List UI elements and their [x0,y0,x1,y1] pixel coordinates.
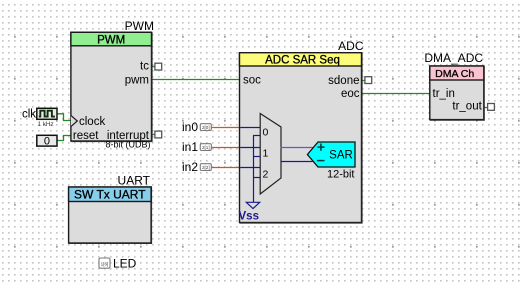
pin sdone [328,75,359,87]
mux (analog input multiplexer) [260,114,281,195]
svg-text:PWM: PWM [125,19,154,33]
pin tr_in [433,88,455,100]
terminal square interrupt [155,131,162,138]
svg-text:DMA_ADC: DMA_ADC [424,51,483,65]
svg-text:12-bit: 12-bit [327,169,355,181]
svg-text:clk: clk [22,109,36,121]
svg-text:in1: in1 [182,140,198,154]
pin pwm [125,75,149,87]
wire: constant 0 to PWM reset [57,136,71,141]
wire: in2 internal (blue) [240,167,261,169]
terminal square sdone [365,77,372,84]
svg-text:DMA Ch: DMA Ch [435,68,474,80]
wire: interrupt stub [152,134,159,136]
ground Vss symbol [239,202,260,222]
wire: in1 internal (blue) [240,147,261,149]
svg-text:tc: tc [140,61,149,73]
svg-text:2[0]: 2[0] [202,125,210,130]
wire: vss stub ch0 [253,135,261,137]
svg-text:1: 1 [263,147,269,159]
svg-text:reset: reset [73,130,99,142]
svg-text:in0: in0 [182,120,198,134]
label 1 kHz [38,121,54,128]
svg-text:2[1]: 2[1] [202,145,210,150]
svg-text:0: 0 [263,126,269,138]
svg-text:ADC: ADC [338,39,364,53]
svg-text:in2: in2 [182,160,198,174]
wire: in1 analog wire [211,147,239,149]
svg-text:clock: clock [79,116,105,128]
wire: clk to PWM clock [57,114,71,121]
pin reset [73,130,99,142]
svg-text:Vss: Vss [239,210,259,222]
pin icon in0 [200,124,211,131]
wire: vss stub ch1 [253,156,261,158]
label ADC (instance name) [338,39,364,53]
terminal square tr_out [488,104,495,111]
wire: in0 internal (blue) [240,127,261,129]
svg-text:eoc: eoc [341,88,360,100]
wire: vss stub ch2 [253,177,261,179]
svg-text:sdone: sdone [328,75,359,87]
SAR core (cyan pentagon) [307,142,355,167]
component PWM_1 block [71,32,152,141]
svg-text:tr_out: tr_out [452,101,482,113]
pin label in1 [182,140,198,154]
wire: vss vertical bus [253,136,255,203]
label 8-bit (UDB) [105,140,150,150]
pin label in0 [182,120,198,134]
label UART (instance name) [118,173,151,187]
wire: tr_out stub [484,107,491,109]
svg-text:soc: soc [243,75,261,87]
constant 0 block [37,135,57,147]
svg-text:LED: LED [113,256,137,270]
pin icon in1 [200,144,211,151]
pin soc [243,75,261,87]
component ADC SAR Seq block [240,53,363,223]
wire: sdone stub [362,80,369,82]
pin label in2 [182,160,198,174]
wire: pwm output to ADC soc [152,79,240,81]
wire: in0 analog wire [211,127,239,129]
label 12-bit [327,169,355,181]
pin icon LED [99,258,110,268]
svg-text:ADC SAR Seq: ADC SAR Seq [265,54,340,66]
pin tc [140,61,149,73]
label DMA_ADC (instance name) [424,51,483,65]
svg-text:UART: UART [118,173,151,187]
wire: mux plus output [281,147,314,149]
svg-text:pwm: pwm [125,75,149,87]
wire: tc stub [152,66,159,68]
svg-text:tr_in: tr_in [433,88,455,100]
svg-text:SW Tx UART: SW Tx UART [74,188,146,202]
label clk [22,109,36,121]
svg-text:PWM: PWM [97,34,125,46]
terminal square tc [155,63,162,70]
svg-text:0: 0 [44,136,50,148]
svg-text:2[2]: 2[2] [202,165,210,170]
component SW Tx UART block [69,187,152,243]
svg-text:2: 2 [263,168,269,180]
svg-text:1[6]: 1[6] [101,261,109,266]
wire: mux minus output [281,161,313,163]
label LED [113,256,137,270]
pin tr_out [452,101,482,113]
wire: in2 analog wire [211,167,239,169]
pin interrupt [107,130,150,142]
pin eoc [341,88,360,100]
svg-text:1 kHz: 1 kHz [38,121,54,128]
svg-text:SAR: SAR [329,150,353,162]
svg-text:8-bit (UDB): 8-bit (UDB) [105,140,150,150]
component DMA Ch block [430,66,484,120]
label PWM (instance name) [125,19,154,33]
wire: ADC eoc to DMA tr_in [362,93,430,95]
pin clock with chevron [71,115,106,128]
clock source clk [37,108,57,119]
pin icon in2 [200,164,211,171]
